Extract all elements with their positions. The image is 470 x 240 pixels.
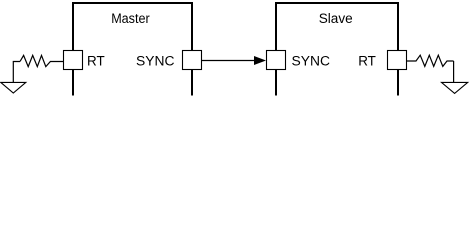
wire: left ground stub + lead to resistor bbox=[13, 62, 20, 83]
block Master (open-bottom rectangle) bbox=[73, 3, 192, 96]
svg-text:SYNC: SYNC bbox=[292, 52, 330, 68]
svg-text:SYNC: SYNC bbox=[136, 52, 174, 68]
arrowhead into Slave SYNC bbox=[254, 56, 266, 65]
block Slave (open-bottom rectangle) bbox=[276, 3, 398, 96]
resistor right (zigzag from Slave RT) bbox=[407, 55, 454, 66]
svg-text:Master: Master bbox=[111, 10, 150, 26]
pin RT of Master (box on left edge) bbox=[64, 51, 83, 70]
pin SYNC of Master (box on right edge) bbox=[183, 51, 202, 70]
svg-text:RT: RT bbox=[358, 53, 376, 68]
wire: right resistor to ground bbox=[453, 61, 455, 82]
ground right (open triangle) bbox=[442, 82, 468, 93]
ground left (open triangle) bbox=[1, 82, 26, 93]
pin RT of Slave (box on right edge) bbox=[388, 51, 407, 70]
pin SYNC of Slave (box on left edge) bbox=[267, 51, 286, 70]
wire: SYNC Master to SYNC Slave bbox=[202, 60, 255, 62]
resistor left (zigzag to Master RT) bbox=[20, 55, 64, 66]
svg-text:Slave: Slave bbox=[319, 11, 353, 26]
svg-text:RT: RT bbox=[87, 53, 105, 68]
